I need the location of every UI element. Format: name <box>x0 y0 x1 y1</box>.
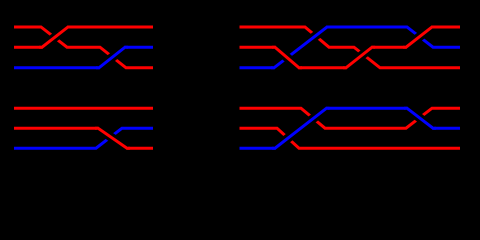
TR C4 red-b over blue casing <box>406 27 432 47</box>
BR D3 blue over <box>404 108 436 128</box>
TL X1 red-b over casing <box>42 27 68 47</box>
TL strand red-b <box>14 27 153 47</box>
TR strand red-b <box>240 27 461 68</box>
TR C3 red-b over red-a casing <box>346 47 372 68</box>
BL strand red-1 straight <box>14 107 153 110</box>
TL X2 blue over casing <box>99 47 125 68</box>
TR C3 red-b over red-a <box>343 47 375 68</box>
TL X1 red-b over <box>39 27 71 47</box>
panel top-left braid <box>14 27 153 68</box>
TR C2 blue over red-a casing <box>274 27 327 68</box>
BR strand blue <box>240 108 461 148</box>
BL X red-2 over <box>95 128 130 148</box>
BL X red-2 over casing <box>98 128 127 148</box>
TR strand blue <box>240 27 461 68</box>
TR C1 red-b over blue casing <box>275 47 299 68</box>
BR D3 blue over casing <box>407 108 433 128</box>
TL strand red-a (under) <box>14 27 153 68</box>
panel top-right braid <box>240 27 461 68</box>
BR D1-D2 blue over casing <box>275 108 327 148</box>
TR strand red-a (under) <box>240 27 461 68</box>
BR strand red-b (under) <box>240 128 461 148</box>
panel bottom-left braid <box>14 108 153 148</box>
TL strand blue <box>14 47 153 68</box>
TR C4 red-b over blue <box>403 27 435 47</box>
panel bottom-right braid <box>240 108 461 148</box>
TR C1 red-b over blue <box>272 47 302 68</box>
TL X2 blue over <box>96 47 128 68</box>
BR D1-D2 blue over <box>272 108 330 148</box>
BL strand blue (under) <box>14 128 153 148</box>
BL strand red-2 <box>14 128 153 148</box>
BR strand red-a (under) <box>240 108 461 128</box>
TR C2 blue over red-a <box>271 27 330 68</box>
